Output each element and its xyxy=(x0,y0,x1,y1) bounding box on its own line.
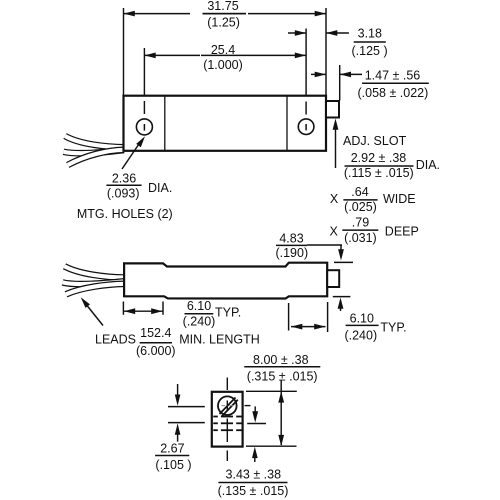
3.43 tick right xyxy=(247,423,266,425)
2.36 leader arrow xyxy=(122,144,139,169)
centerline above hole left xyxy=(143,101,145,114)
svg-text:(.240): (.240) xyxy=(183,314,216,328)
svg-text:(6.000): (6.000) xyxy=(136,344,176,358)
dim 1.47 outside arrows xyxy=(311,73,326,75)
centerline above hole right xyxy=(305,102,307,115)
svg-text:3.18: 3.18 xyxy=(358,26,382,40)
top view adj screw protrusion xyxy=(326,101,339,118)
svg-text:2.67: 2.67 xyxy=(160,442,184,456)
svg-text:MTG. HOLES (2): MTG. HOLES (2) xyxy=(77,207,173,221)
svg-text:(.315 ± .015): (.315 ± .015) xyxy=(247,369,318,383)
top view wires xyxy=(64,136,125,165)
svg-text:MIN. LENGTH: MIN. LENGTH xyxy=(179,333,260,347)
svg-text:DIA.: DIA. xyxy=(416,158,440,172)
svg-text:(.031): (.031) xyxy=(344,231,377,245)
svg-text:.64: .64 xyxy=(351,185,368,199)
wire lead C bottom xyxy=(68,150,124,165)
svg-text:X: X xyxy=(330,225,339,239)
right 6.10 ext lines xyxy=(288,303,290,331)
svg-text:25.4: 25.4 xyxy=(211,43,235,57)
top view body xyxy=(124,96,327,151)
svg-text:DIA.: DIA. xyxy=(148,181,172,195)
svg-text:LEADS: LEADS xyxy=(95,333,136,347)
2.67 lines left xyxy=(168,406,205,408)
svg-text:(.105 ): (.105 ) xyxy=(155,458,191,472)
8.00 tick bottom xyxy=(246,445,297,447)
side view wires xyxy=(63,266,125,294)
svg-text:3.43 ± .38: 3.43 ± .38 xyxy=(226,468,282,482)
side wire lead A top xyxy=(65,266,125,277)
svg-text:X: X xyxy=(330,192,339,206)
extension line hole left xyxy=(143,48,145,96)
2.67 down arrow xyxy=(177,384,179,396)
dim 3.18 outside arrows xyxy=(288,32,306,34)
svg-text:6.10: 6.10 xyxy=(350,311,374,325)
side view body outline xyxy=(124,263,327,299)
LEADS leader arrow xyxy=(87,306,103,326)
4.83 tick bottom xyxy=(333,296,351,298)
svg-text:2.36: 2.36 xyxy=(112,171,136,185)
dash right of rect xyxy=(245,405,251,407)
dim line 25.4 xyxy=(144,54,200,56)
svg-text:TYP.: TYP. xyxy=(380,320,406,334)
left 6.10 dim line xyxy=(124,310,163,312)
svg-text:.79: .79 xyxy=(352,216,369,230)
svg-text:DEEP: DEEP xyxy=(385,225,419,239)
svg-text:(.058 ± .022): (.058 ± .022) xyxy=(358,86,429,100)
svg-text:(.240): (.240) xyxy=(344,328,377,342)
svg-text:(1.000): (1.000) xyxy=(203,58,243,72)
svg-text:2.92 ± .38: 2.92 ± .38 xyxy=(351,151,407,165)
wire lead B middle xyxy=(64,150,125,153)
wire lead A top xyxy=(65,136,124,147)
2.67 up arrow xyxy=(177,433,179,442)
svg-text:(.025): (.025) xyxy=(344,200,377,214)
4.83 tick top xyxy=(334,261,353,263)
svg-text:(1.25): (1.25) xyxy=(207,16,240,30)
svg-text:(.125 ): (.125 ) xyxy=(352,44,388,58)
svg-text:6.10: 6.10 xyxy=(187,299,211,313)
extension line body right xyxy=(325,8,327,96)
svg-text:31.75: 31.75 xyxy=(207,0,238,13)
dashed lead rows xyxy=(213,417,241,431)
side wire lead B middle xyxy=(63,281,125,284)
left 6.10 ext lines xyxy=(122,302,124,315)
screw vertical center dash xyxy=(226,401,228,411)
svg-text:WIDE: WIDE xyxy=(383,192,416,206)
8.00 dim vertical xyxy=(280,381,282,446)
dim line 31.75 xyxy=(124,13,191,15)
4.83 leader xyxy=(307,244,342,246)
svg-text:4.83: 4.83 xyxy=(279,231,303,245)
extension line protrusion right xyxy=(339,65,341,101)
svg-text:(.093): (.093) xyxy=(107,187,140,201)
adj slot leader arrow xyxy=(335,128,337,168)
extension line body left xyxy=(123,8,125,96)
side view screw protrusion xyxy=(327,270,339,287)
8.00 tick top xyxy=(246,390,297,392)
side wire lead C bottom xyxy=(66,284,125,295)
fraction bars xyxy=(106,14,428,483)
3.43 down arrow xyxy=(254,406,256,413)
4.83 up arrow xyxy=(340,306,342,311)
top view internal line left xyxy=(164,96,166,151)
svg-text:ADJ. SLOT: ADJ. SLOT xyxy=(343,134,407,148)
bottom view rect xyxy=(212,392,243,447)
svg-text:152.4: 152.4 xyxy=(140,326,171,340)
svg-text:8.00 ± .38: 8.00 ± .38 xyxy=(253,353,309,367)
svg-text:(.115 ± .015): (.115 ± .015) xyxy=(344,166,414,180)
mounting hole right xyxy=(298,119,314,135)
svg-text:TYP.: TYP. xyxy=(215,305,241,319)
mounting hole left xyxy=(136,119,152,135)
screw slot lines xyxy=(220,398,236,415)
svg-text:(.135 ± .015): (.135 ± .015) xyxy=(218,484,289,498)
svg-text:1.47 ± .56: 1.47 ± .56 xyxy=(365,68,421,82)
bottom view screw circle xyxy=(218,396,237,415)
top view internal line right xyxy=(286,96,288,151)
screw horizontal center dashes xyxy=(222,405,226,407)
vertical centerline segments xyxy=(226,378,228,391)
3.43 up arrow xyxy=(254,457,256,463)
right 6.10 dim line xyxy=(291,326,326,328)
extension line hole right xyxy=(305,29,307,96)
svg-text:(.190): (.190) xyxy=(275,246,308,260)
